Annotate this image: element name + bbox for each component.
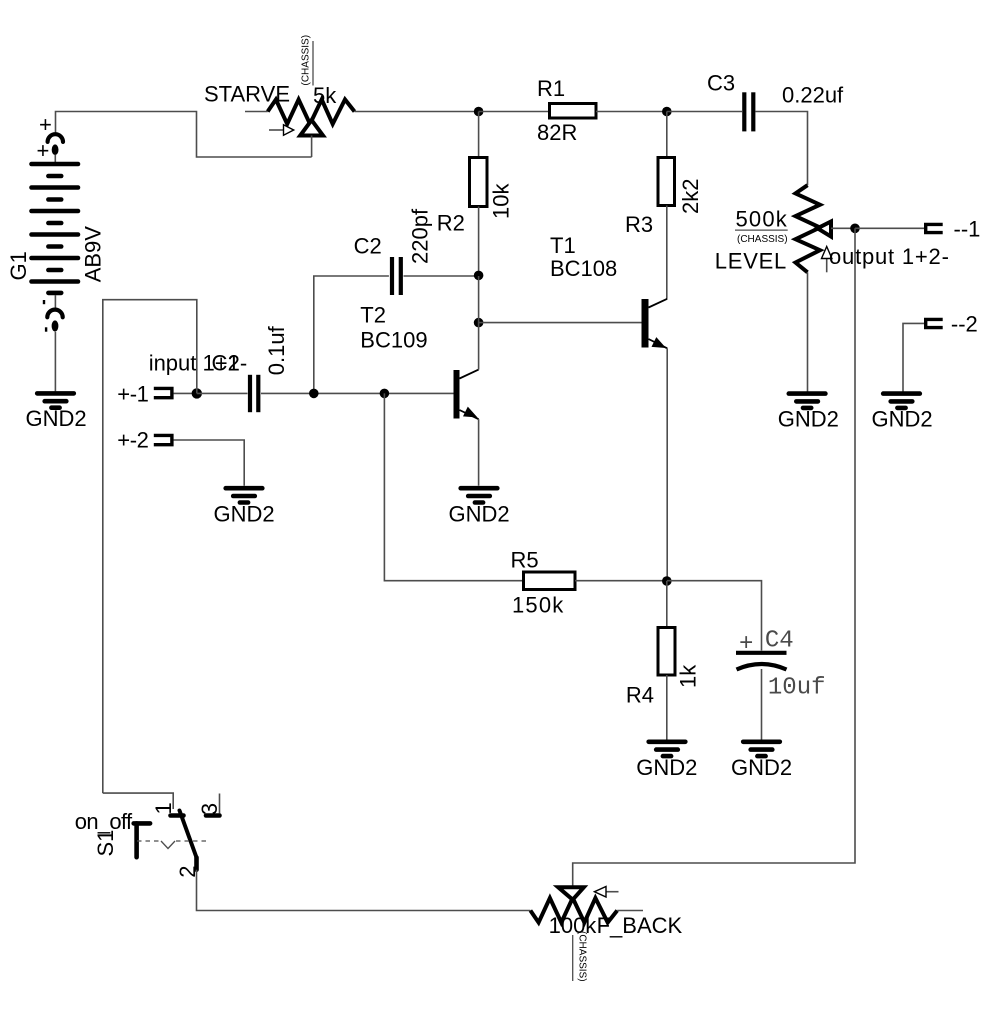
node C junction (output) [850,224,860,234]
potentiometer LEVEL 500k [715,185,855,273]
svg-text:output 1+2-: output 1+2- [829,244,950,269]
resistor R4 1k [626,581,701,740]
svg-text:G1: G1 [6,251,31,280]
svg-text:3: 3 [197,803,222,815]
svg-text:BC109: BC109 [360,327,427,352]
input connector +-1 [117,381,197,406]
svg-text:GND2: GND2 [449,501,510,526]
svg-text:R2: R2 [437,211,465,236]
ground GND2 (C4) [731,742,792,780]
ground GND2 (R4) [636,742,697,780]
transistor T2 BC109 [360,276,478,486]
svg-text:R4: R4 [626,683,654,708]
node A junction [474,107,484,117]
ground GND2 (level) [778,394,839,432]
wire node A to R1 [479,111,550,113]
resistor R3 2k2 [625,112,703,299]
svg-text:100k: 100k [549,913,598,938]
wire level pot to ground [807,272,809,391]
svg-text:STARVE: STARVE [204,82,290,107]
capacitor C1 0.1uf [250,325,289,412]
wire T2 collector to T1 base [479,322,642,324]
switch S1 on_off [75,793,222,878]
wire connector 2 to ground [903,323,924,391]
wire switch to feedback pot [197,870,531,911]
svg-text:10k: 10k [489,183,514,219]
svg-text:C1: C1 [212,351,240,376]
svg-text:T1: T1 [550,233,576,258]
capacitor C4 10uf [736,628,826,740]
node B junction [662,107,672,117]
svg-text:+: + [37,138,50,163]
svg-text:GND2: GND2 [26,406,87,431]
wire input rect to switch [103,300,197,793]
wire node C down to feedback [573,228,855,887]
svg-text:1: 1 [151,802,176,814]
ground GND2 (output 2) [872,394,933,432]
wire node to C4 [667,581,762,651]
svg-text:2k2: 2k2 [678,179,703,214]
ground GND2 (battery) [26,393,87,431]
node (R5 branch) [380,389,390,399]
input connector +-2 [117,427,244,486]
svg-text:GND2: GND2 [636,755,697,780]
capacitor C2 220pf [314,208,479,393]
svg-text:R1: R1 [537,76,565,101]
resistor R2 10k [437,112,514,276]
wire R5 branch down [384,393,523,580]
svg-text:0.22uf: 0.22uf [782,83,844,108]
wire input node to C1 [197,392,248,394]
svg-text:S1: S1 [93,830,118,857]
svg-text:+-1: +-1 [117,381,148,406]
svg-text:GND2: GND2 [731,755,792,780]
wire C3 to level pot [756,112,808,186]
svg-text:BC108: BC108 [550,256,617,281]
svg-text:220pf: 220pf [408,208,433,264]
svg-text:150k: 150k [512,593,565,618]
svg-text:F_BACK: F_BACK [597,913,683,938]
svg-text:--1: --1 [954,216,981,241]
svg-text:+: + [39,112,52,137]
svg-text:+-2: +-2 [117,427,148,452]
node (R5/R4/T1 emitter) [662,576,672,586]
svg-text:C4: C4 [765,628,794,655]
ground GND2 (T2 emitter) [449,488,510,526]
svg-text:(CHASSIS): (CHASSIS) [577,931,588,982]
potentiometer STARVE 5k [204,35,355,157]
potentiometer F_BACK 100k [530,887,682,982]
svg-text:5k: 5k [313,83,337,108]
svg-text:R5: R5 [511,548,539,573]
svg-text:GND2: GND2 [778,407,839,432]
wire battery minus to ground [54,332,56,392]
capacitor C3 0.22uf [707,71,844,132]
resistor R5 150k [511,548,667,618]
wire R1 to node B [596,111,667,113]
connector output 1 [926,216,981,241]
wire starve right to node A [355,111,479,113]
resistor R1 82R [537,76,596,145]
wire node B to C3 [667,111,742,113]
svg-text:GND2: GND2 [214,501,275,526]
node (C2/R2/T2 collector) [474,271,484,281]
svg-text:C3: C3 [707,71,735,96]
svg-text:GND2: GND2 [872,407,933,432]
svg-text:T2: T2 [360,303,386,328]
transistor T1 BC108 [550,233,667,581]
node (T2 collector / T1 base) [474,318,484,328]
svg-text:C2: C2 [354,234,382,259]
node (input) [192,388,202,398]
svg-text:--2: --2 [951,311,978,336]
svg-text:1k: 1k [676,664,701,688]
svg-text:+: + [739,631,753,658]
svg-text:10uf: 10uf [768,674,826,701]
svg-text:0.1uf: 0.1uf [264,325,289,375]
wire node C to connector 1 [855,227,924,229]
ground GND2 (input 2) [214,488,275,526]
connector output 2 [926,311,978,336]
svg-text:(CHASSIS): (CHASSIS) [301,35,312,86]
svg-text:AB9V: AB9V [81,226,106,283]
svg-text:82R: 82R [537,120,577,145]
svg-text:LEVEL: LEVEL [715,249,787,274]
svg-text:R3: R3 [625,212,653,237]
wire C1 to T2 base [261,392,454,394]
svg-text:500k: 500k [736,206,789,231]
wire battery plus to starve wiper [56,112,312,158]
node (C2 branch) [309,389,319,399]
svg-text:(CHASSIS): (CHASSIS) [737,234,788,245]
battery G1 [6,112,106,332]
